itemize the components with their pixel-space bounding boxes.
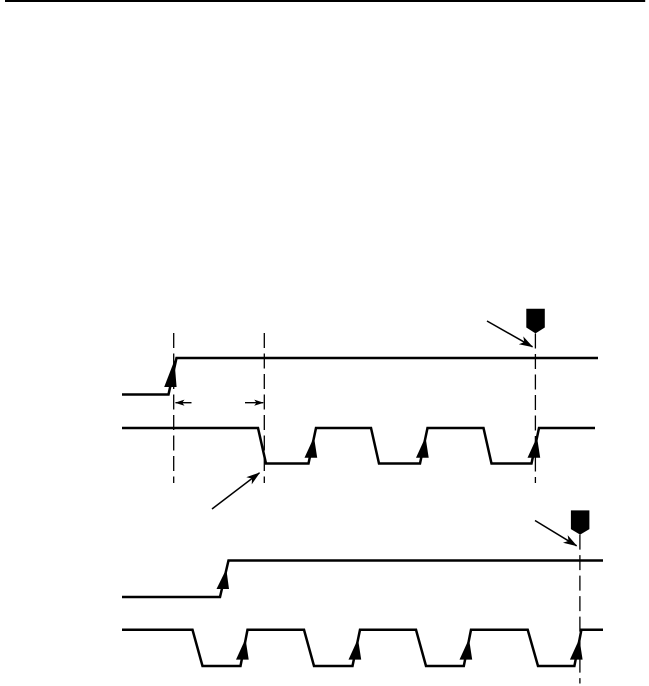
interval arrow pointing left to line A [176,402,192,404]
dashed reference line C (diagram 1, completion point) [534,334,536,484]
annotation arrow to flag marker 1 [487,321,533,347]
rising edge arrowhead 2 on clock 1 [416,437,429,458]
rising edge arrowhead 3 on clock 2 [460,639,473,660]
signal 2 lower waveform (clock-like motor signal) [122,630,603,666]
rising edge arrowhead 2 on clock 2 [349,639,362,660]
pentagon flag marker 2 (diagram 2) [571,510,590,534]
dashed reference line A (diagram 1, orientation command rise) [173,333,175,483]
dashed reference line B (diagram 1, motor signal fall) [263,333,265,483]
rising edge arrowhead 1 on clock 2 [236,639,249,660]
top rule [5,0,645,2]
rising edge arrowhead on signal 1 upper [164,361,176,388]
rising edge arrowhead 3 on clock 1 [528,437,541,458]
signal 2 upper waveform (command signal: low then high) [122,561,603,598]
signal 1 lower waveform (clock-like motor signal) [122,428,595,464]
pentagon flag marker 1 (diagram 1) [526,309,545,334]
dashed reference line D (diagram 2, completion point) [579,535,581,684]
signal 1 upper waveform (command signal: low then high) [122,358,598,395]
annotation arrow to clock-1 fall at line B [212,473,260,509]
interval arrow pointing right to line B [245,402,263,404]
rising edge arrowhead on signal 2 upper [217,569,230,589]
rising edge arrowhead 4 on clock 2 [570,639,583,660]
rising edge arrowhead 1 on clock 1 [305,437,318,458]
annotation arrow to flag marker 2 [535,521,577,546]
